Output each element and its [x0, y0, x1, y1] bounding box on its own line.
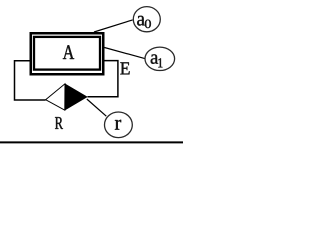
wire from box left side to diamond left vertex [15, 61, 46, 100]
module box A outer border [31, 33, 104, 74]
arbiter R diamond outline (left half) [46, 84, 65, 110]
wire from box top-right corner to place a0 [94, 20, 133, 32]
wire from diamond tip to place r [87, 99, 107, 116]
place a1 circle [145, 47, 175, 70]
arbiter R filled triangle (right half) [65, 84, 88, 110]
place a0 circle [133, 7, 160, 32]
wire from box right edge to place a1 [105, 48, 146, 59]
place r circle [105, 112, 133, 138]
label a0 [137, 16, 145, 26]
label R [55, 117, 63, 129]
bottom rule [0, 141, 183, 143]
label a1 [151, 54, 158, 63]
wire from box right side down to diamond right tip [88, 61, 118, 97]
label A [63, 45, 74, 59]
label E [120, 62, 129, 74]
module box A inner border [34, 37, 100, 70]
label r [115, 120, 121, 130]
